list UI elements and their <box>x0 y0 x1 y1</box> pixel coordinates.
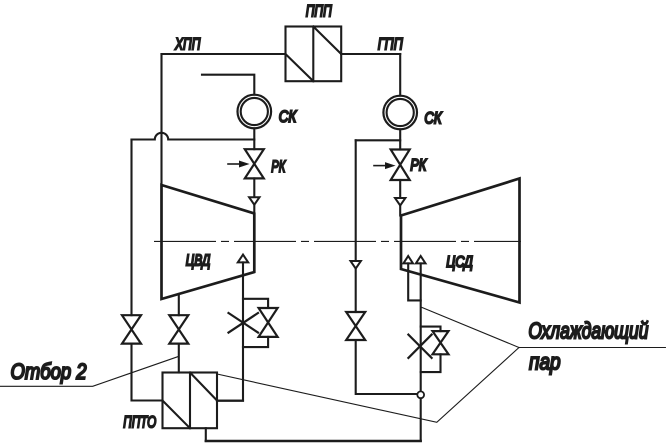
turbine ЦСД body <box>401 179 520 303</box>
ППТО divider <box>189 373 191 429</box>
wire valve 2 down to ППТО top <box>178 344 180 373</box>
wire valve 1 to ППТО left entry <box>132 344 163 401</box>
wire left drain from bypass down <box>130 140 132 316</box>
leader to ППТО corner <box>217 348 519 423</box>
throttle X valve (right) <box>408 335 431 358</box>
ЦСД cooling admission up-triangle 1 <box>403 256 413 263</box>
check valve (down triangle) on right steam line <box>395 198 405 206</box>
wire right drain from bypass down <box>355 140 357 261</box>
svg-text:ЦВД: ЦВД <box>186 253 211 270</box>
wire СК right to РК right <box>399 129 401 149</box>
leader to ЦСД cooling line <box>422 308 519 348</box>
bypass loop (left) bottom <box>243 337 268 347</box>
ЦВД exhaust up-triangle <box>238 255 248 263</box>
ППТО right diagonal <box>190 373 217 401</box>
wire ХПП vertical down to ЦВД inlet corner <box>160 54 162 185</box>
svg-text:СК: СК <box>279 107 297 126</box>
valve bowtie 2 <box>169 315 188 343</box>
leader underline for Охлаждающий пар <box>519 347 665 349</box>
РК right actuator arrow <box>374 165 386 167</box>
wire ХПП horizontal (cold reheat header) <box>162 53 286 55</box>
check valve (down triangle) on right drain <box>351 261 361 269</box>
ППП divider <box>312 27 314 82</box>
wire admission 2 main cooling line <box>420 263 422 441</box>
control valve РК (left) bowtie <box>245 149 264 178</box>
ППП left diagonal <box>286 54 314 81</box>
control valve РК (right) bowtie <box>391 150 410 181</box>
svg-text:СК: СК <box>424 109 442 128</box>
axis centerline of turbine shafts <box>154 240 521 242</box>
wire РК right to ЦСД inlet <box>399 180 401 216</box>
bypass loop around X valve (right) top <box>421 327 441 332</box>
heat exchanger ППП (reheater) body <box>286 27 342 82</box>
ЦСД cooling admission up-triangle 2 <box>416 256 426 263</box>
РК left actuator arrow <box>228 163 240 165</box>
svg-text:ППТО: ППТО <box>123 412 156 431</box>
wire to right drain bowtie <box>355 269 357 312</box>
heat exchanger ППТО body <box>163 373 218 429</box>
svg-text:ГПП: ГПП <box>378 35 403 54</box>
wire ППТО right entry <box>217 400 243 402</box>
bowtie valve on left loop <box>259 308 278 337</box>
wire fresh steam stub to left stop valve <box>202 75 254 95</box>
wire bottom return line <box>206 440 421 442</box>
wire right drain to node <box>356 340 421 394</box>
leader line for Отбор 2 <box>0 357 178 387</box>
wire ГПП vertical down to right stop valve <box>399 54 401 96</box>
stop valve СК (left) inner ring <box>241 98 268 125</box>
wire ППТО bottom drain <box>205 428 207 441</box>
bypass wire between СК-РК left with hop over ХПП line <box>132 133 255 140</box>
check valve (down triangle) on left steam line <box>249 197 259 205</box>
bowtie valve on right drain <box>346 312 365 340</box>
wire admission 1 down <box>408 263 421 300</box>
svg-text:РК: РК <box>271 157 286 176</box>
svg-text:ППП: ППП <box>306 2 333 21</box>
svg-text:ЦСД: ЦСД <box>446 254 473 271</box>
svg-text:пар: пар <box>529 349 561 375</box>
bypass wire between СК-РК right <box>356 139 401 141</box>
stop valve СК (right) inner ring <box>387 99 414 126</box>
stop valve СК (left) outer ring <box>238 95 272 129</box>
svg-text:Отбор 2: Отбор 2 <box>11 359 87 384</box>
wire from ЦВД bottom to valve 2 <box>178 294 180 315</box>
node junction circle <box>417 391 424 398</box>
valve on Отбор-2 line (left bowtie 1) <box>122 315 141 343</box>
stop valve СК (right) outer ring <box>383 96 417 130</box>
ППП right diagonal <box>313 27 341 55</box>
svg-text:Охлаждающий: Охлаждающий <box>528 317 648 343</box>
bypass loop around X valve (left) top <box>243 299 268 308</box>
wire СК left to РК left <box>253 128 255 149</box>
throttle X valve (left) <box>229 313 259 333</box>
svg-text:ХПП: ХПП <box>174 35 201 54</box>
wire ГПП horizontal (hot reheat) <box>341 53 400 55</box>
wire РК left to ЦВД inlet <box>253 178 255 213</box>
turbine ЦВД body <box>162 185 255 299</box>
bowtie valve on right loop <box>433 331 449 354</box>
svg-text:РК: РК <box>410 156 427 175</box>
ППТО left diagonal <box>163 401 191 429</box>
wire ЦВД cooling steam line down to ППТО right entry <box>217 262 243 400</box>
bypass loop (right) bottom <box>421 354 441 372</box>
